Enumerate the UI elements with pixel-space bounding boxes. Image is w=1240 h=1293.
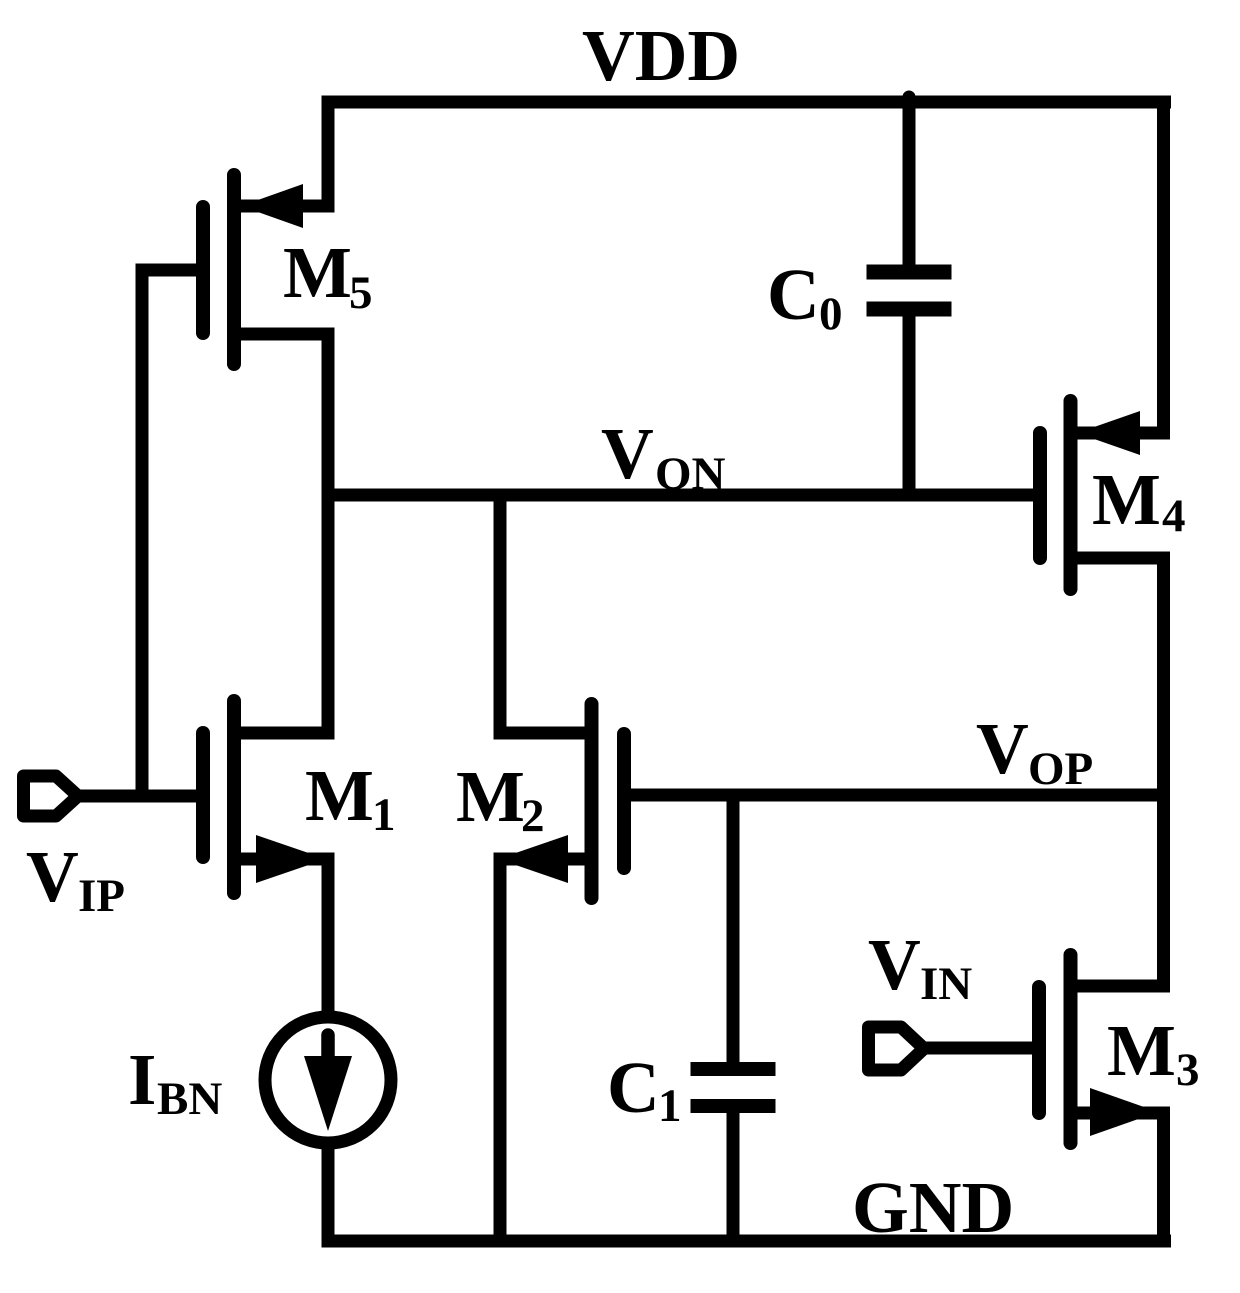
svg-text:M: M	[283, 232, 352, 313]
M4 source arrow	[1077, 411, 1140, 455]
node VOP label	[976, 708, 1093, 795]
wire M3 drain	[1071, 980, 1164, 993]
svg-text:BN: BN	[157, 1073, 222, 1125]
C1 top plate	[691, 1062, 776, 1076]
M2 channel bar	[585, 704, 599, 898]
svg-text:M: M	[1107, 1010, 1176, 1091]
C0 bottom plate	[867, 302, 952, 317]
transistor M3 (NMOS)	[1039, 955, 1200, 1241]
M3 gate bar	[1032, 987, 1046, 1113]
port VIP input terminal	[24, 776, 197, 922]
svg-text:2: 2	[521, 790, 545, 842]
capacitor C0	[767, 97, 952, 495]
svg-text:GND: GND	[852, 1167, 1014, 1248]
transistor M1 (NMOS)	[203, 701, 396, 1013]
svg-text:M: M	[1092, 459, 1161, 540]
C1 bottom plate	[691, 1099, 776, 1113]
current source IBN	[128, 859, 391, 1241]
M3 source arrow	[1090, 1088, 1158, 1136]
svg-text:V: V	[868, 924, 921, 1005]
svg-text:4: 4	[1162, 490, 1186, 542]
wire VIP lead to M1 gate	[78, 790, 196, 803]
transistor M2 (NMOS, mirrored)	[456, 495, 624, 1241]
wire M1 source down to IBN	[234, 859, 328, 1013]
wire VDD top rail	[322, 96, 1172, 109]
IBN arrow head	[304, 1056, 352, 1131]
M4 channel bar	[1064, 401, 1078, 589]
transistor M4 (PMOS)	[1040, 102, 1186, 986]
svg-text:C: C	[767, 254, 820, 335]
port VIN input terminal	[868, 924, 1032, 1070]
M1 gate bar	[196, 733, 210, 857]
node VON label	[601, 413, 726, 500]
M2 gate bar	[617, 734, 631, 868]
wire C1 top to VOP net	[727, 795, 740, 1062]
wire C0 top to VDD rail	[903, 97, 916, 265]
M5 gate bar	[196, 207, 210, 333]
wire M5 gate to VIP net	[142, 270, 196, 796]
svg-text:V: V	[976, 708, 1029, 789]
wire C0 bottom to VON	[903, 316, 916, 495]
svg-text:1: 1	[658, 1080, 682, 1132]
wire M1 source to IBN top	[322, 859, 335, 1013]
svg-text:I: I	[128, 1039, 156, 1120]
capacitor C1	[607, 795, 776, 1241]
svg-text:M: M	[456, 756, 525, 837]
svg-text:ON: ON	[655, 448, 726, 500]
wire VIN lead to M3 gate	[923, 1042, 1032, 1055]
svg-text:3: 3	[1176, 1044, 1200, 1096]
wire M5 drain to VDD rail	[241, 102, 328, 206]
wire IBN bottom to GND rail	[322, 1148, 335, 1241]
svg-text:IP: IP	[78, 870, 125, 922]
wire M4 source down to VOP net	[1071, 558, 1164, 986]
wire M2 drain up to VON	[500, 495, 592, 733]
M1 source arrow	[256, 835, 326, 883]
svg-text:0: 0	[819, 288, 843, 340]
M5 channel bar	[227, 175, 241, 364]
svg-text:OP: OP	[1028, 743, 1093, 795]
node VOP wire (M2 gate to M4/M3 junction)	[628, 789, 1164, 802]
wire GND bottom rail	[322, 1235, 1172, 1248]
M5 source arrow	[241, 184, 303, 228]
svg-text:VDD: VDD	[582, 15, 740, 96]
svg-text:5: 5	[349, 267, 373, 319]
svg-text:IN: IN	[920, 958, 972, 1010]
svg-text:C: C	[607, 1047, 660, 1128]
wire M3 source down to GND rail	[1071, 1113, 1164, 1241]
wire M1 drain	[234, 727, 328, 740]
IBN arrow stem	[321, 1035, 335, 1058]
wire M2 source down to GND rail	[500, 859, 592, 1241]
M1 channel bar	[227, 701, 241, 893]
svg-text:V: V	[26, 836, 79, 917]
IBN circle	[265, 1017, 391, 1143]
svg-text:1: 1	[372, 789, 396, 841]
M2 source arrow	[498, 835, 568, 883]
svg-text:V: V	[601, 413, 654, 494]
transistor M5 (PMOS)	[142, 102, 373, 796]
M3 channel bar	[1064, 955, 1078, 1143]
svg-text:M: M	[305, 755, 374, 836]
wire M5 source down to M1 drain	[234, 334, 328, 733]
M4 gate bar	[1033, 433, 1047, 558]
node VON wire	[325, 489, 1033, 502]
wire C1 bottom to GND rail	[727, 1112, 740, 1241]
C0 top plate	[867, 265, 952, 280]
wire M4 drain to VDD rail	[1077, 102, 1164, 433]
